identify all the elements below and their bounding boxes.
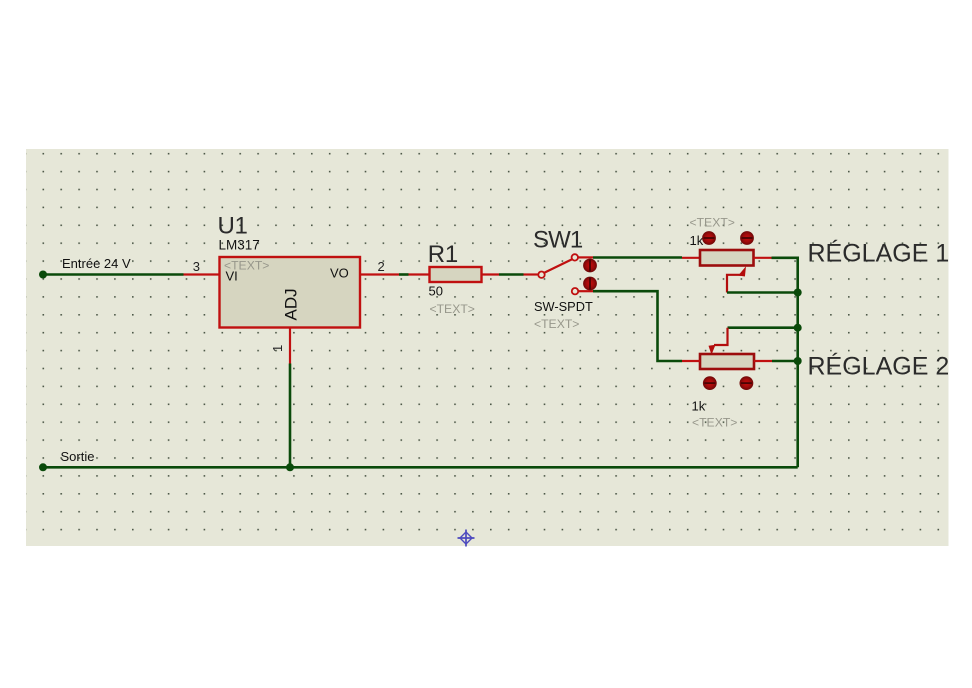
resistor R1 body: [430, 267, 482, 282]
potentiometer RV1 left lead: [682, 257, 700, 259]
svg-text:LM317: LM317: [219, 238, 260, 253]
wire: SW1 throw 1 to RV1 left: [593, 256, 682, 259]
svg-text:ADJ: ADJ: [282, 288, 301, 320]
potentiometer RV2 actuator dot right: [740, 376, 754, 390]
wire: output net (Sortie) bottom bus: [43, 466, 798, 469]
switch SW1 pole lead: [524, 273, 538, 275]
wire: RV2 wiper to right bus: [728, 326, 798, 329]
svg-text:<TEXT>: <TEXT>: [690, 216, 735, 230]
potentiometer RV2 right lead: [754, 360, 772, 362]
junction: RV2 right joins right bus: [794, 357, 802, 365]
switch SW1 throw 2 contact circle: [572, 288, 578, 294]
wire: input net from node A to U1 pin 3: [43, 273, 184, 276]
switch SW1 lever arm: [545, 259, 572, 272]
op-amp U1 pin 2 lead (VO): [360, 273, 399, 275]
svg-text:R1: R1: [428, 241, 458, 268]
svg-text:RÉGLAGE 2: RÉGLAGE 2: [808, 352, 950, 381]
svg-text:RÉGLAGE 1: RÉGLAGE 1: [808, 239, 950, 268]
svg-text:1k: 1k: [692, 399, 706, 414]
potentiometer RV2 left lead: [682, 360, 700, 362]
op-amp U1 pin 1 lead (ADJ): [289, 328, 291, 364]
regulator U1 body: [220, 257, 361, 328]
potentiometer RV1 right lead: [754, 257, 772, 259]
switch SW1 actuator dot lower: [583, 277, 597, 291]
svg-text:U1: U1: [218, 213, 248, 240]
svg-text:SW-SPDT: SW-SPDT: [534, 299, 593, 314]
node B : output net left terminal dot: [39, 463, 47, 471]
svg-text:SW1: SW1: [533, 227, 583, 254]
potentiometer RV1 body: [700, 250, 754, 266]
resistor R1 left lead: [409, 273, 430, 275]
svg-text:<TEXT>: <TEXT>: [430, 302, 475, 316]
svg-text:2: 2: [378, 259, 385, 274]
svg-text:1k: 1k: [690, 233, 704, 248]
wire: RV1 wiper to right bus: [727, 291, 798, 294]
potentiometer RV1 actuator dot right: [740, 231, 754, 245]
junction: wiper2 joins right bus: [794, 324, 802, 332]
wire: U1.ADJ down to output net: [289, 364, 292, 468]
potentiometer RV1 wiper arrow and pin: [727, 266, 746, 292]
svg-text:<TEXT>: <TEXT>: [692, 416, 737, 430]
resistor R1 right lead: [482, 273, 500, 275]
svg-text:VI: VI: [226, 269, 238, 284]
wire: SW1 throw 2 down and right to RV2 left: [593, 291, 682, 361]
wire: right bus from RV1 right down to output net: [772, 258, 798, 468]
switch SW1 throw 2 lead: [578, 290, 593, 292]
svg-text:VO: VO: [330, 266, 349, 281]
node A : input net left terminal dot: [39, 271, 47, 279]
wire: U1.VO to R1 left: [399, 273, 409, 276]
wire: R1 right to SW1 pole: [499, 273, 524, 276]
svg-text:3: 3: [193, 259, 200, 274]
origin marker (blue cross): [458, 530, 475, 547]
wire: RV2 right to right bus: [772, 360, 798, 363]
switch SW1 throw 1 lead: [578, 256, 593, 258]
svg-text:Entrée 24 V: Entrée 24 V: [62, 256, 131, 271]
switch SW1 throw 1 contact circle: [572, 254, 578, 260]
op-amp U1 pin 3 lead (VI): [184, 273, 220, 275]
svg-text:50: 50: [429, 284, 443, 299]
potentiometer RV2 body: [700, 354, 754, 369]
junction: wiper1 joins right bus: [794, 289, 802, 297]
potentiometer RV2 actuator dot left: [703, 376, 717, 390]
switch SW1 actuator dot upper: [583, 259, 597, 273]
svg-text:Sortie: Sortie: [61, 449, 95, 464]
svg-text:<TEXT>: <TEXT>: [534, 317, 579, 331]
switch SW1 pole contact circle: [538, 272, 544, 278]
svg-text:1: 1: [270, 345, 285, 352]
junction: ADJ joins output net: [286, 463, 294, 471]
potentiometer RV2 wiper pin and arrow: [709, 328, 728, 355]
potentiometer RV1 actuator dot left: [702, 231, 716, 245]
